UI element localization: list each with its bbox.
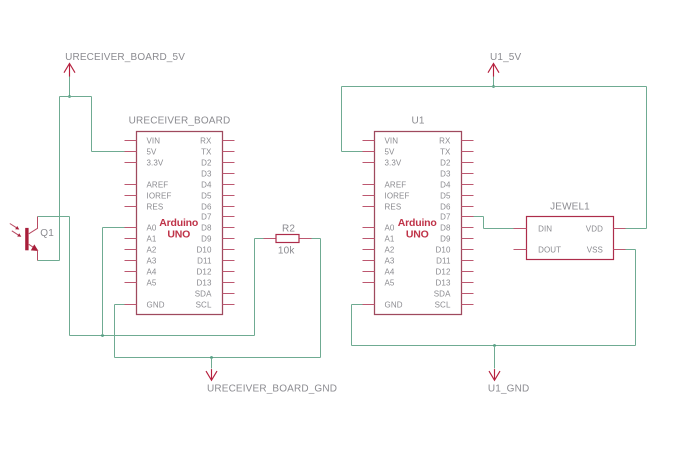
svg-text:D10: D10 — [197, 245, 212, 254]
wire 5V branch down to board 5V pin — [91, 97, 93, 152]
svg-text:D5: D5 — [440, 191, 451, 200]
URECEIVER_BOARD pin 3.3V — [125, 158, 164, 167]
wire A0 vertical — [102, 228, 104, 336]
U1 pin TX — [440, 147, 473, 156]
svg-text:U1_5V: U1_5V — [490, 52, 522, 63]
svg-text:IOREF: IOREF — [147, 191, 172, 200]
svg-text:SCL: SCL — [435, 300, 451, 309]
svg-text:D3: D3 — [440, 169, 451, 178]
URECEIVER_BOARD pin RX — [200, 136, 234, 145]
transistor Q1 emitter lead — [29, 244, 35, 248]
svg-text:A4: A4 — [147, 267, 157, 276]
JEWEL1 pin DIN — [514, 224, 553, 233]
U1 pin D2 — [440, 158, 473, 167]
wire into A0 pin — [103, 227, 125, 229]
URECEIVER_BOARD pin D7 — [201, 212, 234, 221]
transistor Q1 base bar — [25, 228, 28, 250]
svg-text:D8: D8 — [440, 223, 451, 232]
svg-text:3.3V: 3.3V — [147, 158, 164, 167]
wire 5V rail horizontal — [60, 96, 92, 98]
svg-text:U1: U1 — [411, 115, 424, 126]
wire arrow stub to 5V rail — [69, 77, 71, 97]
wire GND drop — [114, 305, 116, 358]
URECEIVER_BOARD pin D11 — [197, 256, 234, 265]
svg-text:SCL: SCL — [196, 300, 212, 309]
U1 pin D13 — [436, 278, 474, 287]
wire up to R2 right — [320, 239, 322, 358]
svg-text:10k: 10k — [278, 246, 295, 257]
svg-text:TX: TX — [440, 147, 451, 156]
svg-text:5V: 5V — [147, 147, 158, 156]
URECEIVER_BOARD pin A1 — [125, 234, 157, 243]
wire into VSS pin — [626, 249, 636, 251]
node junction on 5V rail — [68, 95, 71, 98]
svg-text:GND: GND — [385, 300, 403, 309]
URECEIVER_BOARD pin AREF — [125, 180, 169, 189]
power symbol arrow URECEIVER_BOARD_5V — [64, 64, 75, 77]
wire to Q1 emitter — [38, 260, 60, 262]
wire up to R2 left — [254, 239, 256, 336]
svg-text:VIN: VIN — [385, 136, 399, 145]
JEWEL1 pin VSS — [587, 245, 626, 254]
U1 pin AREF — [363, 180, 407, 189]
URECEIVER_BOARD pin D10 — [197, 245, 235, 254]
svg-text:A3: A3 — [147, 256, 157, 265]
svg-text:Q1: Q1 — [40, 228, 54, 239]
U1 pin SCL — [435, 300, 474, 309]
URECEIVER_BOARD pin D5 — [201, 191, 234, 200]
svg-text:D2: D2 — [201, 158, 212, 167]
transistor Q1 collector lead — [29, 217, 38, 234]
svg-text:A0: A0 — [147, 223, 157, 232]
wire bottom A0 net horizontal — [70, 335, 255, 337]
svg-text:SDA: SDA — [195, 289, 212, 298]
svg-text:URECEIVER_BOARD: URECEIVER_BOARD — [129, 115, 231, 126]
svg-text:RES: RES — [385, 202, 402, 211]
U1 pin A1 — [363, 234, 395, 243]
U1 pin A3 — [363, 256, 395, 265]
svg-text:D4: D4 — [440, 180, 451, 189]
wire into JEWEL1 DIN pin — [484, 228, 514, 230]
wire into VDD pin — [626, 228, 647, 230]
wire from Q1 collector — [38, 216, 70, 218]
U1 pin GND — [363, 300, 403, 309]
svg-text:GND: GND — [147, 300, 165, 309]
Q1 light arrow 2 — [12, 231, 21, 237]
svg-text:D9: D9 — [201, 234, 212, 243]
svg-text:D7: D7 — [440, 212, 451, 221]
U1 pin 5V — [363, 147, 396, 156]
U1 part name Arduino UNO — [398, 217, 437, 240]
wire to R2 left pin — [255, 238, 264, 240]
node junction GND arrow — [210, 356, 213, 359]
wire collector drop — [69, 217, 71, 336]
JEWEL1 pin VDD — [586, 224, 626, 233]
wire arrow stub U1_5V — [493, 77, 495, 87]
resistor R2 left pin — [264, 238, 276, 240]
URECEIVER_BOARD pin D4 — [201, 180, 234, 189]
wire right drop to JEWEL1 VDD — [646, 87, 648, 229]
node junction A0 net — [101, 334, 104, 337]
U1 pin D4 — [440, 180, 473, 189]
svg-text:RX: RX — [439, 136, 451, 145]
svg-text:URECEIVER_BOARD_GND: URECEIVER_BOARD_GND — [207, 384, 337, 395]
Q1 light arrow 1 — [10, 224, 19, 230]
svg-text:RES: RES — [147, 202, 164, 211]
svg-text:D6: D6 — [440, 202, 451, 211]
wire from URECEIVER_BOARD GND pin — [115, 304, 125, 306]
URECEIVER_BOARD pin VIN — [125, 136, 161, 145]
URECEIVER_BOARD pin SDA — [195, 289, 235, 298]
URECEIVER_BOARD pin D13 — [197, 278, 235, 287]
svg-text:VIN: VIN — [147, 136, 161, 145]
svg-text:D13: D13 — [436, 278, 451, 287]
URECEIVER_BOARD pin A5 — [125, 278, 157, 287]
svg-text:A3: A3 — [385, 256, 395, 265]
transistor Q1 emitter arrowhead — [31, 244, 39, 251]
URECEIVER_BOARD pin A2 — [125, 245, 157, 254]
svg-text:D8: D8 — [201, 223, 212, 232]
URECEIVER_BOARD pin SCL — [196, 300, 235, 309]
svg-text:3.3V: 3.3V — [385, 158, 402, 167]
URECEIVER_BOARD pin RES — [125, 202, 164, 211]
wire from U1 D7 pin — [474, 216, 484, 218]
URECEIVER_BOARD pin TX — [201, 147, 234, 156]
svg-text:A4: A4 — [385, 267, 395, 276]
svg-text:VDD: VDD — [586, 224, 603, 233]
svg-text:D6: D6 — [201, 202, 212, 211]
node junction U1_GND arrow — [493, 344, 496, 347]
wire from U1 GND pin — [352, 304, 363, 306]
U1 pin D6 — [440, 202, 473, 211]
U1 pin SDA — [434, 289, 474, 298]
wire up to JEWEL1 VSS — [635, 250, 637, 346]
svg-text:DOUT: DOUT — [538, 245, 561, 254]
node junction U1 5V rail — [492, 85, 495, 88]
svg-text:D9: D9 — [440, 234, 451, 243]
svg-text:D13: D13 — [197, 278, 212, 287]
wire to R2 right pin — [312, 238, 321, 240]
svg-text:AREF: AREF — [147, 180, 169, 189]
U1 pin A0 — [363, 223, 395, 232]
svg-text:D11: D11 — [197, 256, 212, 265]
U1 board outline — [375, 132, 462, 315]
URECEIVER_BOARD pin D2 — [201, 158, 234, 167]
svg-text:A1: A1 — [385, 234, 395, 243]
U1 pin RES — [363, 202, 402, 211]
svg-text:5V: 5V — [385, 147, 396, 156]
URECEIVER_BOARD pin D3 — [201, 169, 234, 178]
svg-text:VSS: VSS — [587, 245, 603, 254]
URECEIVER_BOARD board outline — [137, 132, 223, 315]
svg-text:TX: TX — [201, 147, 212, 156]
wire GND bottom horizontal — [115, 357, 321, 359]
svg-text:D2: D2 — [440, 158, 451, 167]
URECEIVER_BOARD pin A4 — [125, 267, 157, 276]
ground symbol arrow URECEIVER_BOARD_GND — [206, 369, 217, 380]
U1 pin RX — [439, 136, 473, 145]
resistor R2 right pin — [300, 238, 312, 240]
URECEIVER_BOARD pin D6 — [201, 202, 234, 211]
svg-text:A5: A5 — [147, 278, 157, 287]
U1 pin 3.3V — [363, 158, 402, 167]
wire into U1 5V pin — [342, 151, 363, 153]
svg-text:URECEIVER_BOARD_5V: URECEIVER_BOARD_5V — [65, 52, 185, 63]
URECEIVER_BOARD pin A0 — [125, 223, 157, 232]
svg-text:UNO: UNO — [167, 228, 190, 240]
svg-text:JEWEL1: JEWEL1 — [550, 201, 590, 212]
svg-text:RX: RX — [200, 136, 212, 145]
svg-text:D10: D10 — [436, 245, 451, 254]
power symbol arrow U1_5V — [488, 64, 499, 77]
svg-text:Arduino: Arduino — [159, 217, 198, 229]
U1 pin A2 — [363, 245, 395, 254]
resistor R2 body — [276, 235, 299, 243]
wire left drop to U1 5V pin — [341, 87, 343, 152]
URECEIVER_BOARD pin IOREF — [125, 191, 172, 200]
U1 pin D10 — [436, 245, 474, 254]
svg-text:DIN: DIN — [538, 224, 552, 233]
svg-text:D3: D3 — [201, 169, 212, 178]
svg-text:A2: A2 — [385, 245, 395, 254]
U1 pin D9 — [440, 234, 473, 243]
wire U1_GND arrow stub — [494, 346, 496, 369]
U1 pin A4 — [363, 267, 395, 276]
U1 pin VIN — [363, 136, 399, 145]
svg-text:A1: A1 — [147, 234, 157, 243]
svg-text:A2: A2 — [147, 245, 157, 254]
svg-text:D5: D5 — [201, 191, 212, 200]
wire U1 GND drop — [351, 305, 353, 346]
JEWEL1 pin DOUT — [514, 245, 562, 254]
URECEIVER_BOARD pin D8 — [201, 223, 234, 232]
wire U1 GND bottom horizontal — [352, 345, 636, 347]
URECEIVER_BOARD pin D9 — [201, 234, 234, 243]
wire into URECEIVER_BOARD 5V pin — [92, 151, 125, 153]
URECEIVER_BOARD pin D12 — [197, 267, 235, 276]
svg-text:UNO: UNO — [406, 228, 429, 240]
U1 pin A5 — [363, 278, 395, 287]
URECEIVER_BOARD pin A3 — [125, 256, 157, 265]
URECEIVER_BOARD pin GND — [125, 300, 165, 309]
svg-text:D4: D4 — [201, 180, 212, 189]
svg-text:D12: D12 — [436, 267, 451, 276]
svg-text:IOREF: IOREF — [385, 191, 410, 200]
U1 pin IOREF — [363, 191, 410, 200]
svg-text:D7: D7 — [201, 212, 212, 221]
U1 pin D8 — [440, 223, 473, 232]
svg-text:D12: D12 — [197, 267, 212, 276]
wire D7 jog down — [483, 217, 485, 229]
svg-text:AREF: AREF — [385, 180, 407, 189]
svg-text:A5: A5 — [385, 278, 395, 287]
transistor Q1 emitter terminal — [37, 250, 39, 261]
U1 pin D12 — [436, 267, 474, 276]
JEWEL1 outline — [527, 217, 614, 260]
URECEIVER_BOARD part name Arduino UNO — [159, 217, 198, 240]
U1 pin D11 — [436, 256, 473, 265]
svg-text:SDA: SDA — [434, 289, 451, 298]
svg-text:Arduino: Arduino — [398, 217, 437, 229]
U1 pin D7 — [440, 212, 473, 221]
U1 pin D3 — [440, 169, 473, 178]
svg-text:U1_GND: U1_GND — [488, 384, 529, 395]
U1 pin D5 — [440, 191, 473, 200]
svg-text:A0: A0 — [385, 223, 395, 232]
wire U1 5V rail horizontal — [342, 86, 647, 88]
svg-text:R2: R2 — [282, 223, 295, 234]
svg-text:D11: D11 — [436, 256, 451, 265]
ground symbol arrow U1_GND — [489, 369, 500, 380]
wire 5V rail left drop to Q1 emitter — [59, 97, 61, 261]
URECEIVER_BOARD pin 5V — [125, 147, 158, 156]
wire GND arrow stub — [211, 358, 213, 369]
